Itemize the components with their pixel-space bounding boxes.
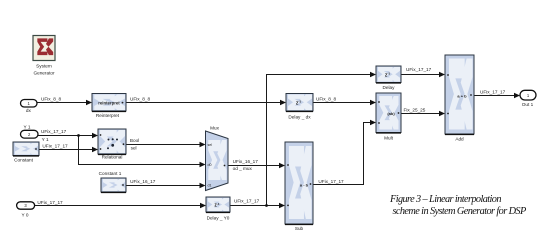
svg-text:Fix_25_25: Fix_25_25 [404, 108, 426, 113]
svg-text:scheme in System Generator for: scheme in System Generator for DSP [393, 206, 527, 217]
svg-text:UFix_17_17: UFix_17_17 [318, 179, 344, 184]
svg-text:Figure 3 – Linear interpolatio: Figure 3 – Linear interpolation [389, 194, 501, 205]
svg-text:Bool: Bool [130, 138, 139, 143]
svg-text:a + b: a + b [457, 93, 467, 98]
svg-text:Delay _ dx: Delay _ dx [288, 115, 311, 120]
svg-text:UFix_17_17: UFix_17_17 [406, 67, 432, 72]
svg-text:reinterpret: reinterpret [98, 100, 120, 105]
svg-text:Y 0: Y 0 [22, 213, 29, 218]
svg-text:UFix_17_17: UFix_17_17 [42, 143, 68, 148]
svg-text:Mult: Mult [384, 136, 394, 141]
svg-text:d0: d0 [208, 163, 212, 167]
svg-text:Generator: Generator [33, 70, 55, 75]
svg-text:Relational: Relational [102, 155, 123, 160]
svg-text:Reinterpret: Reinterpret [96, 113, 120, 118]
svg-text:UFix_17_17: UFix_17_17 [480, 89, 506, 94]
svg-text:Sub: Sub [295, 226, 304, 231]
svg-text:d1: d1 [208, 183, 212, 187]
svg-text:System: System [36, 63, 52, 68]
svg-text:Add: Add [455, 137, 464, 142]
svg-text:Y 1: Y 1 [42, 137, 49, 142]
svg-text:sel: sel [131, 145, 137, 150]
svg-text:UFix_16_17: UFix_16_17 [130, 179, 156, 184]
svg-text:UFix_16_17: UFix_16_17 [233, 159, 259, 164]
svg-text:Delay _ Y0: Delay _ Y0 [207, 216, 230, 221]
svg-text:od _ mux: od _ mux [233, 166, 253, 171]
svg-text:Delay: Delay [383, 85, 396, 90]
svg-text:Mux: Mux [210, 126, 220, 131]
svg-text:Y 1: Y 1 [24, 125, 31, 130]
svg-text:UFix_8_8: UFix_8_8 [130, 97, 150, 102]
svg-text:UFix_8_8: UFix_8_8 [41, 97, 61, 102]
svg-text:(ab): (ab) [387, 111, 395, 116]
svg-text:Out 1: Out 1 [522, 102, 534, 107]
svg-text:UFix_17_17: UFix_17_17 [41, 129, 67, 134]
svg-text:Constant 1: Constant 1 [99, 171, 122, 176]
svg-text:Constant: Constant [14, 158, 33, 163]
svg-text:UFix_17_17: UFix_17_17 [234, 198, 260, 203]
svg-text:UFix_17_17: UFix_17_17 [37, 200, 63, 205]
svg-text:dx: dx [26, 108, 32, 113]
svg-text:UFix_8_8: UFix_8_8 [316, 97, 336, 102]
svg-text:sel: sel [208, 143, 213, 147]
svg-text:a - b: a - b [300, 182, 309, 187]
